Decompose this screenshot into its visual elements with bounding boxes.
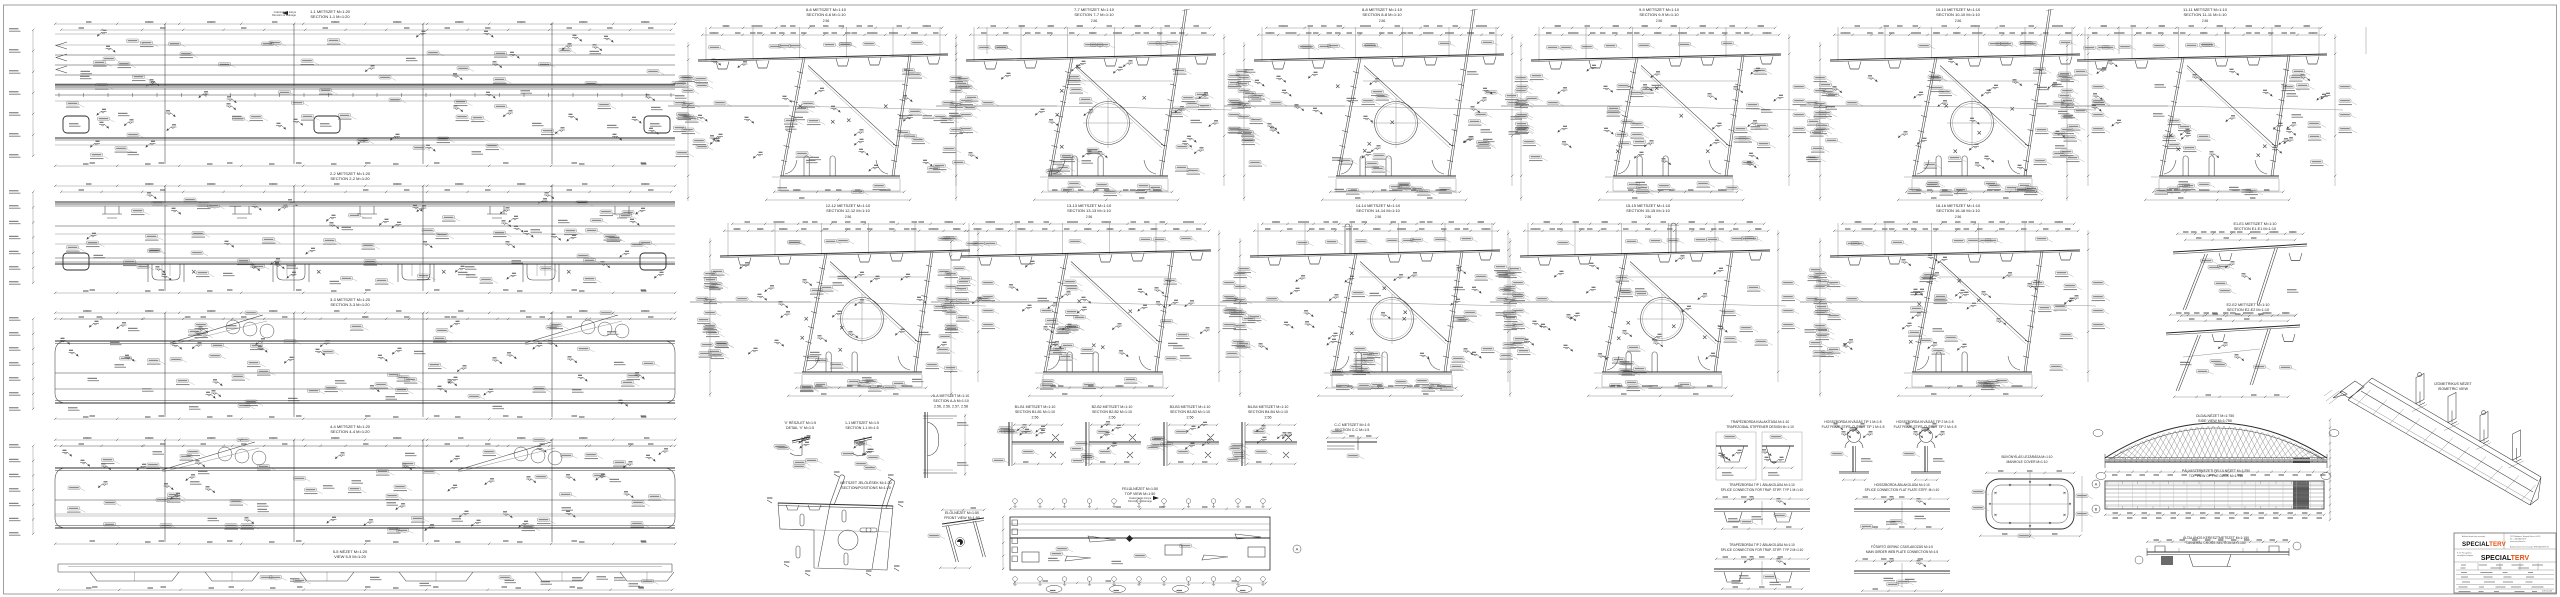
svg-text:IZOMETRIKUS NÉZET: IZOMETRIKUS NÉZET: [2434, 381, 2472, 386]
svg-text:tervpályázat alapján: tervpályázat alapján: [2457, 554, 2473, 557]
svg-text:TOP VIEW M=1:50: TOP VIEW M=1:50: [1125, 492, 1156, 496]
svg-text:2.56: 2.56: [1032, 416, 1039, 420]
svg-text:2.56: 2.56: [1645, 215, 1652, 219]
svg-text:C-C METSZET M=1:5: C-C METSZET M=1:5: [1334, 423, 1369, 427]
svg-text:2.56, 2.56, 2.57, 2.58: 2.56, 2.56, 2.57, 2.58: [934, 405, 968, 409]
svg-text:SECTION 16-16 M=1:10: SECTION 16-16 M=1:10: [1936, 208, 1980, 213]
svg-text:SPLICE CONNECTION FLAT PLATE S: SPLICE CONNECTION FLAT PLATE STIFF. M=1:…: [1865, 488, 1940, 492]
svg-text:SECTION 7-7 M=1:10: SECTION 7-7 M=1:10: [1074, 12, 1114, 17]
svg-text:SPECIALTERV: SPECIALTERV: [2481, 555, 2530, 562]
svg-text:2.56: 2.56: [845, 215, 852, 219]
svg-text:SECTION 8-8 M=1:10: SECTION 8-8 M=1:10: [1362, 12, 1402, 17]
svg-text:BÚVÓNYÍLÁS LEZÁRÁSA M=1:10: BÚVÓNYÍLÁS LEZÁRÁSA M=1:10: [2001, 454, 2052, 459]
svg-text:SECTION 4-4 M=1:20: SECTION 4-4 M=1:20: [330, 429, 370, 434]
svg-text:S.T.V. Kft. győztes: S.T.V. Kft. győztes: [2457, 552, 2472, 555]
svg-text:HOSSZBORDA ÁBLAKOLÁSA M=1:10: HOSSZBORDA ÁBLAKOLÁSA M=1:10: [1874, 483, 1930, 487]
svg-text:2.56: 2.56: [1086, 215, 1093, 219]
svg-text:B: B: [2095, 507, 2098, 512]
title block SPECIALTERV: [2454, 533, 2556, 593]
svg-text:SPLICE CONNECTION FOR TRAP. ST: SPLICE CONNECTION FOR TRAP. STIFF. TYP 2…: [1721, 548, 1804, 552]
svg-text:B4-B4 METSZET M=1:10: B4-B4 METSZET M=1:10: [1248, 405, 1289, 409]
svg-text:B2-B2 METSZET M=1:10: B2-B2 METSZET M=1:10: [1092, 405, 1133, 409]
svg-text:'V' RÉSZLET M=1:5: 'V' RÉSZLET M=1:5: [784, 420, 816, 425]
svg-text:2.56: 2.56: [1091, 19, 1098, 23]
svg-text:SECTION/POSITIONS M=1:20: SECTION/POSITIONS M=1:20: [841, 486, 891, 490]
svg-text:tel.: +36(1)368-9107: tel.: +36(1)368-9107: [2510, 538, 2526, 541]
svg-text:SECTION 12-12 M=1:10: SECTION 12-12 M=1:10: [826, 208, 870, 213]
svg-text:2.56: 2.56: [1265, 416, 1272, 420]
svg-text:2.56: 2.56: [1656, 19, 1663, 23]
svg-text:METSZET JELÖLÉSEK M=1:20: METSZET JELÖLÉSEK M=1:20: [840, 480, 891, 485]
svg-text:SECTION 9-9 M=1:10: SECTION 9-9 M=1:10: [1639, 12, 1679, 17]
svg-text:SPECIALTERV: SPECIALTERV: [2462, 541, 2507, 548]
svg-text:SECTION E1-E1 M=1:10: SECTION E1-E1 M=1:10: [2234, 227, 2276, 231]
svg-text:2.56: 2.56: [1379, 19, 1386, 23]
svg-text:SECTION B1-B1 M=1:10: SECTION B1-B1 M=1:10: [1015, 410, 1055, 414]
svg-text:2.56: 2.56: [1955, 215, 1962, 219]
svg-text:MAIN GIRDER WEB PLATE CONNECTI: MAIN GIRDER WEB PLATE CONNECTION M=1:5: [1866, 550, 1939, 554]
svg-text:SPLICE CONNECTION FOR TRAP. ST: SPLICE CONNECTION FOR TRAP. STIFF. TYP 1…: [1721, 488, 1804, 492]
svg-text:E2-E2 METSZET M=1:10: E2-E2 METSZET M=1:10: [2226, 303, 2269, 307]
svg-text:2.56: 2.56: [1109, 416, 1116, 420]
svg-text:1117 Budapest, Hunyadi János ú: 1117 Budapest, Hunyadi János út 162.: [2510, 535, 2541, 538]
svg-text:TOP VIEW OF THE DECK M=1:750: TOP VIEW OF THE DECK M=1:750: [2189, 474, 2243, 478]
svg-text:SIDE VIEW M=1:750: SIDE VIEW M=1:750: [2198, 419, 2232, 423]
svg-text:FŐTARTÓ GERINC CSATLAKOZÁS M: FŐTARTÓ GERINC CSATLAKOZÁS M=1:5: [1871, 544, 1933, 549]
svg-text:FELÜLNÉZET M=1:50: FELÜLNÉZET M=1:50: [1122, 486, 1158, 491]
svg-text:2.56: 2.56: [2202, 19, 2209, 23]
svg-text:A: A: [1296, 547, 1299, 552]
svg-text:SECTION 3-3 M=1:20: SECTION 3-3 M=1:20: [330, 302, 370, 307]
svg-text:TRAPEZOIDAL STIFFENER DESIGN M: TRAPEZOIDAL STIFFENER DESIGN M=1:10: [1726, 425, 1794, 429]
svg-text:OLDALNÉZET M=1:750: OLDALNÉZET M=1:750: [2196, 413, 2235, 418]
svg-text:Acélszerkezeti terv tervezője:: Acélszerkezeti terv tervezője: SPECIÁLTE…: [2510, 546, 2550, 549]
svg-text:SECTION 13-13 M=1:10: SECTION 13-13 M=1:10: [1067, 208, 1111, 213]
svg-text:SECTION B3-B3 M=1:10: SECTION B3-B3 M=1:10: [1170, 410, 1210, 414]
svg-text:VIEW 5-5 M=1:20: VIEW 5-5 M=1:20: [334, 554, 366, 559]
svg-text:2.56: 2.56: [1375, 215, 1382, 219]
svg-text:www.specialterv.hu: www.specialterv.hu: [2510, 540, 2525, 543]
svg-text:TRAPÉZBORDA TIP 2 ÁBLAKOLÁSA: TRAPÉZBORDA TIP 2 ÁBLAKOLÁSA M=1:10: [1729, 542, 1795, 547]
svg-text:A: A: [2095, 482, 2098, 487]
svg-text:MANHOLE COVER M=1:10: MANHOLE COVER M=1:10: [2007, 460, 2048, 464]
svg-text:SECTION 6-6 M=1:10: SECTION 6-6 M=1:10: [806, 12, 846, 17]
svg-text:1-1 METSZET M=1:5: 1-1 METSZET M=1:5: [845, 421, 879, 425]
svg-text:SECTION 11-11 M=1:10: SECTION 11-11 M=1:10: [2183, 12, 2227, 17]
svg-text:TRAPÉZBORDA TIP 1 ÁBLAKOLÁSA: TRAPÉZBORDA TIP 1 ÁBLAKOLÁSA M=1:10: [1729, 482, 1795, 487]
svg-text:E1-E1 METSZET M=1:10: E1-E1 METSZET M=1:10: [2233, 222, 2276, 226]
svg-text:SECTION 10-10 M=1:10: SECTION 10-10 M=1:10: [1936, 12, 1980, 17]
svg-text:4.08.26_A3: 4.08.26_A3: [2542, 590, 2553, 593]
svg-text:SECTION 15-15 M=1:10: SECTION 15-15 M=1:10: [1626, 208, 1670, 213]
svg-text:B1-B1 METSZET M=1:10: B1-B1 METSZET M=1:10: [1015, 405, 1056, 409]
svg-text:HOSSZBORDA KIVÁGÁS TIP 1 M=: HOSSZBORDA KIVÁGÁS TIP 1 M=1:5: [1824, 420, 1881, 424]
svg-text:HOSSZBORDA KIVÁGÁS TIP 2 M=1:: HOSSZBORDA KIVÁGÁS TIP 2 M=1:5: [1896, 420, 1953, 424]
svg-text:ISOMETRIC VIEW: ISOMETRIC VIEW: [2438, 387, 2469, 391]
svg-text:Direction of drainage: Direction of drainage: [1128, 499, 1152, 503]
svg-text:2.56: 2.56: [1187, 416, 1194, 420]
svg-text:TRAPÉZBORDA KIALAKÍTÁSA M=1:10: TRAPÉZBORDA KIALAKÍTÁSA M=1:10: [1731, 419, 1790, 424]
svg-text:GENERAL CROSS SECTION M=1:150: GENERAL CROSS SECTION M=1:150: [2186, 541, 2245, 545]
svg-text:SECTION E2-E2 M=1:10: SECTION E2-E2 M=1:10: [2227, 308, 2269, 312]
svg-text:B3-B3 METSZET M=1:10: B3-B3 METSZET M=1:10: [1170, 405, 1211, 409]
svg-text:SECTION B4-B4 M=1:10: SECTION B4-B4 M=1:10: [1248, 410, 1288, 414]
svg-text:2.56: 2.56: [823, 19, 830, 23]
svg-text:SECTION 2-2 M=1:20: SECTION 2-2 M=1:20: [330, 176, 370, 181]
svg-text:SECTION 1-1 M=1:5: SECTION 1-1 M=1:5: [845, 426, 878, 430]
svg-text:DETAIL 'V' M=1:5: DETAIL 'V' M=1:5: [786, 426, 814, 430]
svg-text:SECTION 1-1 M=1:20: SECTION 1-1 M=1:20: [310, 14, 350, 19]
svg-text:2.56: 2.56: [1955, 19, 1962, 23]
svg-text:SECTION B2-B2 M=1:10: SECTION B2-B2 M=1:10: [1092, 410, 1132, 414]
svg-text:SECTION A-A M=1:10: SECTION A-A M=1:10: [933, 399, 969, 403]
svg-text:Acélszerkezeti terv tervezője:: Acélszerkezeti terv tervezője:: [2462, 535, 2486, 538]
svg-text:SECTION 14-14 M=1:10: SECTION 14-14 M=1:10: [1356, 208, 1400, 213]
